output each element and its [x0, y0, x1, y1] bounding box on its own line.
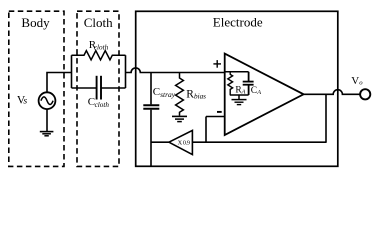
svg-text:R: R: [186, 88, 194, 100]
svg-text:V: V: [351, 75, 359, 87]
svg-text:Electrode: Electrode: [213, 14, 263, 29]
svg-text:cloth: cloth: [94, 44, 109, 52]
svg-text:cloth: cloth: [95, 101, 110, 109]
svg-text:C: C: [251, 86, 257, 96]
svg-text:A: A: [241, 89, 246, 96]
svg-text:C: C: [153, 86, 160, 98]
svg-text:bias: bias: [194, 93, 206, 101]
svg-text:Body: Body: [21, 15, 50, 30]
svg-text:stray: stray: [160, 90, 176, 99]
svg-text:Cloth: Cloth: [84, 15, 113, 30]
svg-text:A: A: [256, 89, 261, 96]
svg-text:s: s: [23, 96, 27, 107]
svg-text:X 0.9: X 0.9: [178, 140, 190, 147]
